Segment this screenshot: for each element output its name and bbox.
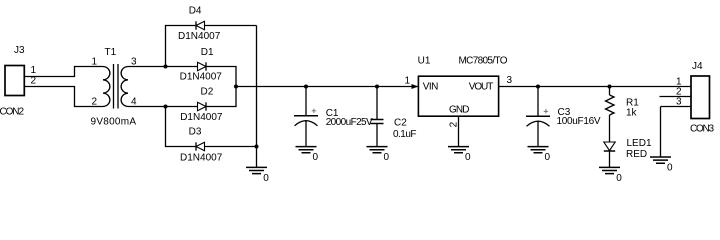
- svg-text:LED1: LED1: [627, 138, 652, 149]
- svg-text:3: 3: [676, 96, 682, 107]
- svg-text:CON3: CON3: [690, 123, 714, 134]
- svg-text:1: 1: [92, 57, 98, 68]
- svg-text:0: 0: [545, 152, 551, 163]
- svg-text:J3: J3: [14, 45, 25, 56]
- svg-text:9V800mA: 9V800mA: [91, 117, 137, 128]
- svg-text:D4: D4: [189, 6, 202, 17]
- svg-text:0: 0: [263, 173, 269, 184]
- svg-text:C2: C2: [394, 117, 407, 128]
- svg-text:3: 3: [507, 75, 513, 86]
- svg-text:D3: D3: [189, 126, 202, 137]
- svg-text:CON2: CON2: [0, 107, 24, 118]
- svg-text:100uF16V: 100uF16V: [557, 116, 601, 127]
- svg-text:2: 2: [92, 97, 98, 108]
- svg-text:0: 0: [313, 152, 319, 163]
- svg-text:D1: D1: [201, 47, 214, 58]
- svg-text:1: 1: [405, 75, 411, 86]
- svg-text:0: 0: [465, 152, 471, 163]
- svg-text:0: 0: [384, 152, 390, 163]
- svg-text:D1N4007: D1N4007: [178, 31, 221, 42]
- svg-text:0: 0: [667, 163, 673, 174]
- svg-text:J4: J4: [692, 61, 703, 72]
- svg-text:U1: U1: [418, 55, 431, 66]
- svg-text:VOUT: VOUT: [469, 82, 494, 93]
- svg-text:2000uF25V: 2000uF25V: [326, 117, 373, 128]
- svg-text:4: 4: [131, 96, 137, 107]
- svg-text:T1: T1: [105, 47, 117, 58]
- svg-text:D1N4007: D1N4007: [180, 152, 223, 163]
- svg-text:D1N4007: D1N4007: [180, 71, 223, 82]
- svg-text:1: 1: [31, 65, 37, 76]
- svg-text:1k: 1k: [626, 107, 638, 118]
- svg-text:2: 2: [31, 76, 37, 87]
- svg-text:D2: D2: [201, 86, 214, 97]
- svg-text:MC7805/TO: MC7805/TO: [459, 55, 508, 66]
- svg-text:0: 0: [616, 173, 622, 184]
- svg-text:RED: RED: [626, 149, 647, 160]
- svg-text:2: 2: [449, 121, 460, 127]
- svg-text:GND: GND: [449, 105, 470, 116]
- svg-text:0.1uF: 0.1uF: [393, 129, 417, 140]
- svg-text:3: 3: [131, 56, 137, 67]
- svg-text:D1N4007: D1N4007: [180, 112, 223, 123]
- svg-text:VIN: VIN: [423, 82, 439, 93]
